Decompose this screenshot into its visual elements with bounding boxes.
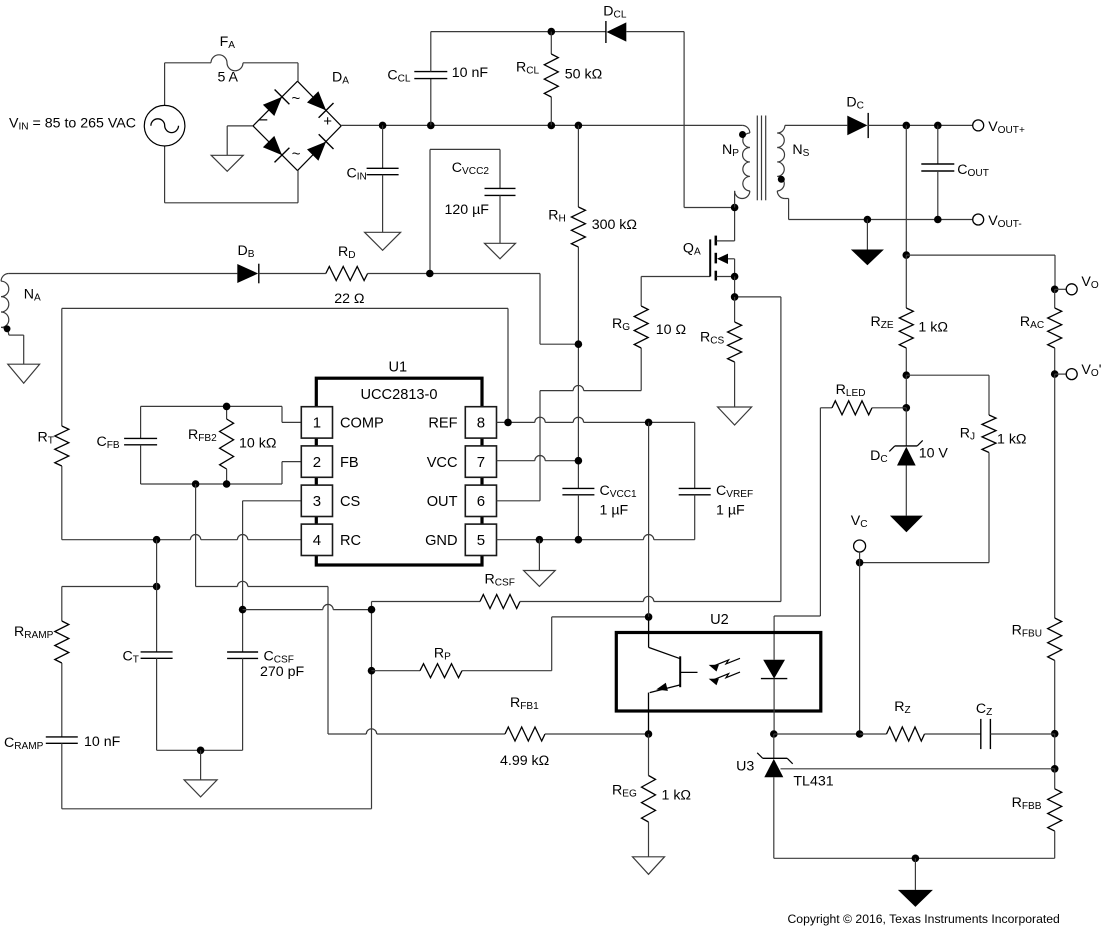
svg-text:10 V: 10 V [919, 446, 949, 462]
svg-text:1 kΩ: 1 kΩ [918, 320, 948, 336]
svg-text:REF: REF [428, 416, 457, 432]
svg-text:1 µF: 1 µF [600, 502, 629, 518]
svg-text:22 Ω: 22 Ω [334, 291, 364, 307]
svg-text:10 Ω: 10 Ω [656, 322, 686, 338]
svg-text:1 µF: 1 µF [716, 502, 745, 518]
svg-text:OUT: OUT [427, 494, 458, 510]
svg-text:5 A: 5 A [218, 70, 239, 86]
svg-text:−: − [258, 111, 268, 130]
svg-text:4.99 kΩ: 4.99 kΩ [500, 753, 549, 769]
svg-text:TL431: TL431 [793, 774, 833, 790]
svg-text:4: 4 [313, 532, 321, 549]
svg-text:10 nF: 10 nF [452, 65, 489, 81]
svg-text:1: 1 [313, 415, 321, 432]
svg-text:CS: CS [340, 494, 361, 510]
svg-text:GND: GND [425, 533, 457, 549]
svg-text:10 kΩ: 10 kΩ [239, 435, 276, 451]
svg-text:8: 8 [477, 415, 485, 432]
svg-text:5: 5 [477, 532, 485, 549]
svg-text:10 nF: 10 nF [84, 734, 121, 750]
svg-text:COMP: COMP [340, 416, 384, 432]
svg-text:120 µF: 120 µF [445, 202, 490, 218]
svg-text:50 kΩ: 50 kΩ [565, 66, 602, 82]
svg-text:2: 2 [313, 454, 321, 471]
svg-text:U2: U2 [710, 612, 729, 628]
svg-text:7: 7 [477, 454, 485, 471]
svg-text:3: 3 [313, 493, 321, 510]
svg-text:~: ~ [292, 146, 301, 163]
svg-text:UCC2813-0: UCC2813-0 [360, 387, 437, 403]
svg-text:FB: FB [340, 455, 359, 471]
svg-text:6: 6 [477, 493, 485, 510]
svg-text:RC: RC [340, 533, 361, 549]
svg-text:1 kΩ: 1 kΩ [662, 788, 692, 804]
svg-text:1 kΩ: 1 kΩ [997, 432, 1027, 448]
svg-text:Copyright © 2016, Texas Instru: Copyright © 2016, Texas Instruments Inco… [788, 912, 1060, 926]
svg-text:300 kΩ: 300 kΩ [592, 217, 637, 233]
svg-text:VIN = 85 to 265 VAC: VIN = 85 to 265 VAC [9, 115, 136, 132]
svg-text:270 pF: 270 pF [260, 664, 305, 680]
svg-text:+: + [323, 113, 332, 130]
svg-text:U3: U3 [736, 759, 754, 775]
svg-text:~: ~ [292, 90, 301, 107]
svg-text:VCC: VCC [427, 455, 458, 471]
svg-text:U1: U1 [389, 359, 408, 375]
